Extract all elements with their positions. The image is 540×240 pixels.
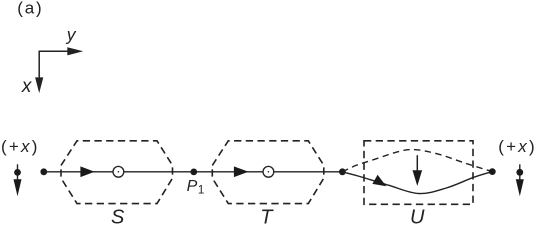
- downward arrow wire in U: [416, 155, 418, 172]
- box T dashed octagon: [212, 141, 323, 204]
- left polarization marker dot: [14, 169, 21, 176]
- node: dot between T and U: [339, 168, 346, 175]
- box S dashed octagon: [61, 141, 173, 204]
- x axis wire: [38, 51, 40, 80]
- box U dashed rectangle: [364, 141, 473, 205]
- right polarization marker dot: [516, 169, 523, 176]
- svg-text:U: U: [410, 207, 425, 226]
- node: source dot: [40, 168, 47, 175]
- arrowhead on line in S: [80, 166, 94, 177]
- node: dot after U: [489, 168, 496, 175]
- svg-text:(+x): (+x): [498, 137, 537, 156]
- open circle in S: [113, 166, 124, 177]
- svg-text:(a): (a): [17, 0, 43, 18]
- solid lower path through U: [342, 172, 492, 194]
- node P1 dot: [190, 169, 197, 176]
- left polarization marker wire: [17, 164, 19, 180]
- right polarization marker arrowhead: [516, 179, 524, 196]
- open circle in T: [263, 166, 274, 177]
- dashed upper path through U: [342, 150, 492, 172]
- svg-text:T: T: [260, 207, 274, 226]
- y axis wire: [39, 50, 70, 52]
- svg-text:P: P: [187, 178, 198, 195]
- wire: main beam line: [44, 171, 343, 173]
- svg-text:S: S: [111, 207, 125, 226]
- downward arrowhead in U: [413, 170, 423, 186]
- svg-text:(+x): (+x): [1, 137, 40, 156]
- svg-text:1: 1: [198, 184, 204, 196]
- svg-text:x: x: [21, 76, 33, 97]
- y axis arrowhead: [67, 47, 83, 55]
- svg-text:y: y: [66, 25, 77, 45]
- center dot of S circle: [118, 171, 120, 173]
- right polarization marker wire: [519, 164, 521, 180]
- left polarization marker arrowhead: [14, 179, 22, 196]
- center dot of T circle: [268, 171, 270, 173]
- arrowhead on line in T: [234, 166, 249, 177]
- arrowhead on solid path in U: [372, 175, 386, 187]
- x axis arrowhead: [35, 77, 43, 93]
